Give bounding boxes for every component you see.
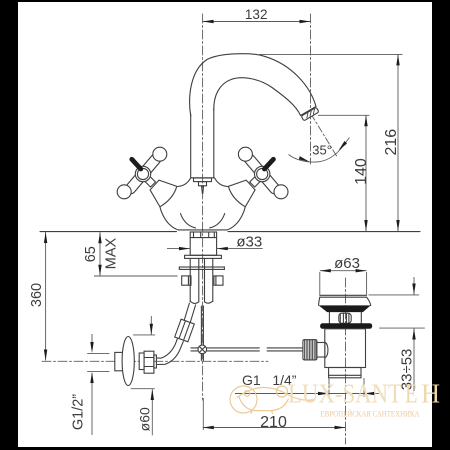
- arrows o63: [320, 269, 331, 272]
- hex union nut: [144, 351, 154, 373]
- handle left stem: [145, 177, 156, 188]
- supply pipe stub extension lines: [88, 353, 110, 355]
- body shoulder left: [178, 178, 191, 187]
- threaded shank: [190, 232, 216, 255]
- dimension 65 MAX line: [99, 232, 101, 275]
- arrows 33-53: [412, 284, 415, 295]
- svg-text:ø60: ø60: [137, 407, 153, 431]
- spacer ring: [139, 353, 144, 370]
- svg-text:35°: 35°: [312, 142, 332, 157]
- handle right stem: [250, 177, 261, 188]
- drain neck: [328, 312, 330, 324]
- handle right: [238, 147, 288, 199]
- svg-text:E: E: [405, 378, 418, 408]
- body dome inner curve left: [181, 214, 196, 228]
- arrowheads: [44, 20, 416, 429]
- svg-text:LUX-SANT: LUX-SANT: [288, 378, 402, 408]
- handle right bonnet cone: [228, 180, 255, 207]
- svg-text:216: 216: [383, 129, 400, 156]
- aerator: [301, 107, 319, 121]
- svg-text:ø33: ø33: [236, 234, 262, 251]
- lift rod knob: [194, 178, 212, 182]
- deck line: [40, 231, 177, 233]
- handle left: [117, 147, 167, 199]
- arrows 360: [44, 232, 47, 243]
- drain flange lip: [320, 294, 367, 296]
- washer 1: [185, 255, 222, 258]
- arrows o60: [150, 324, 153, 335]
- svg-text:H: H: [421, 378, 440, 408]
- body dome right side: [227, 207, 246, 230]
- dimension 33-53: [413, 277, 415, 295]
- washer 2 / mounting nut: [179, 267, 224, 269]
- dimension o60: [150, 316, 152, 335]
- svg-text:G1/2”: G1/2”: [71, 394, 87, 430]
- svg-text:132: 132: [245, 7, 268, 22]
- pop-up horizontal rod: [191, 347, 259, 349]
- spout outer curve: [190, 54, 316, 116]
- handle left bonnet cone: [150, 180, 177, 207]
- svg-text:360: 360: [29, 283, 45, 307]
- svg-text:140: 140: [353, 158, 370, 185]
- dimension o63: [320, 270, 367, 272]
- compression nut left: [182, 276, 191, 285]
- centerline faucet axis: [202, 14, 204, 400]
- centerline spout outlet axis: [310, 14, 312, 164]
- drain body: [325, 329, 366, 368]
- svg-text:MAX: MAX: [104, 237, 120, 269]
- wall flange: [122, 337, 134, 386]
- drain flange section (filled): [319, 305, 371, 312]
- small ring: [154, 355, 157, 368]
- body dome inner curve right: [210, 214, 225, 228]
- arrows 140: [364, 115, 367, 126]
- drain locknut (filled): [320, 323, 372, 329]
- dimension 140 line: [365, 115, 367, 231]
- leader G1/2: [91, 334, 93, 350]
- drain overflow barrel: [339, 313, 351, 323]
- arrows 210: [203, 426, 214, 429]
- arrow G1/2 leader: [90, 342, 93, 353]
- supply tube upper segment: [181, 303, 196, 333]
- dimension 216 line: [397, 54, 399, 231]
- pop-up lift rod: [200, 306, 202, 361]
- arrows 35 arc: [299, 156, 310, 162]
- arrows o33: [179, 247, 190, 250]
- spout column: [190, 114, 192, 177]
- svg-text:ЕВРОПЕЙСКАЯ САНТЕХНИКА: ЕВРОПЕЙСКАЯ САНТЕХНИКА: [321, 409, 420, 418]
- svg-text:ø63: ø63: [334, 255, 360, 272]
- centerline supply elbow axis: [42, 360, 268, 362]
- svg-text:210: 210: [260, 414, 287, 431]
- arrows 132: [203, 20, 214, 23]
- drain tailpiece: [329, 368, 361, 378]
- compression nut right: [214, 276, 223, 285]
- rod pivot clamp: [198, 345, 207, 354]
- spout inner curve: [214, 78, 301, 116]
- dimension 360 line: [45, 232, 47, 361]
- arrows 65MAX: [98, 232, 101, 243]
- arrows G1 1/4: [318, 392, 329, 395]
- watermark bathtub logo: [230, 386, 315, 414]
- body dome left side: [160, 207, 179, 230]
- body base bottom: [179, 229, 227, 231]
- centerline spray direction 35deg: [311, 114, 338, 158]
- dimension 210: [203, 427, 346, 429]
- drain pivot knurled nut: [303, 340, 317, 360]
- dimension 132: [203, 21, 311, 23]
- supply tube union nut: [175, 319, 195, 342]
- angle 35 arc: [289, 138, 350, 163]
- centerline drain axis: [345, 278, 347, 444]
- supply tailpipe tubes: [189, 258, 191, 301]
- supply pipe stub G1/2: [115, 352, 127, 370]
- spout tip face: [301, 107, 317, 116]
- dimension G1 1/4: [235, 393, 364, 395]
- dimension o33: [167, 248, 190, 250]
- supply tube lower bend: [156, 339, 183, 365]
- arrows 216: [396, 54, 399, 65]
- body shoulder right: [215, 178, 228, 187]
- svg-text:65: 65: [83, 246, 99, 262]
